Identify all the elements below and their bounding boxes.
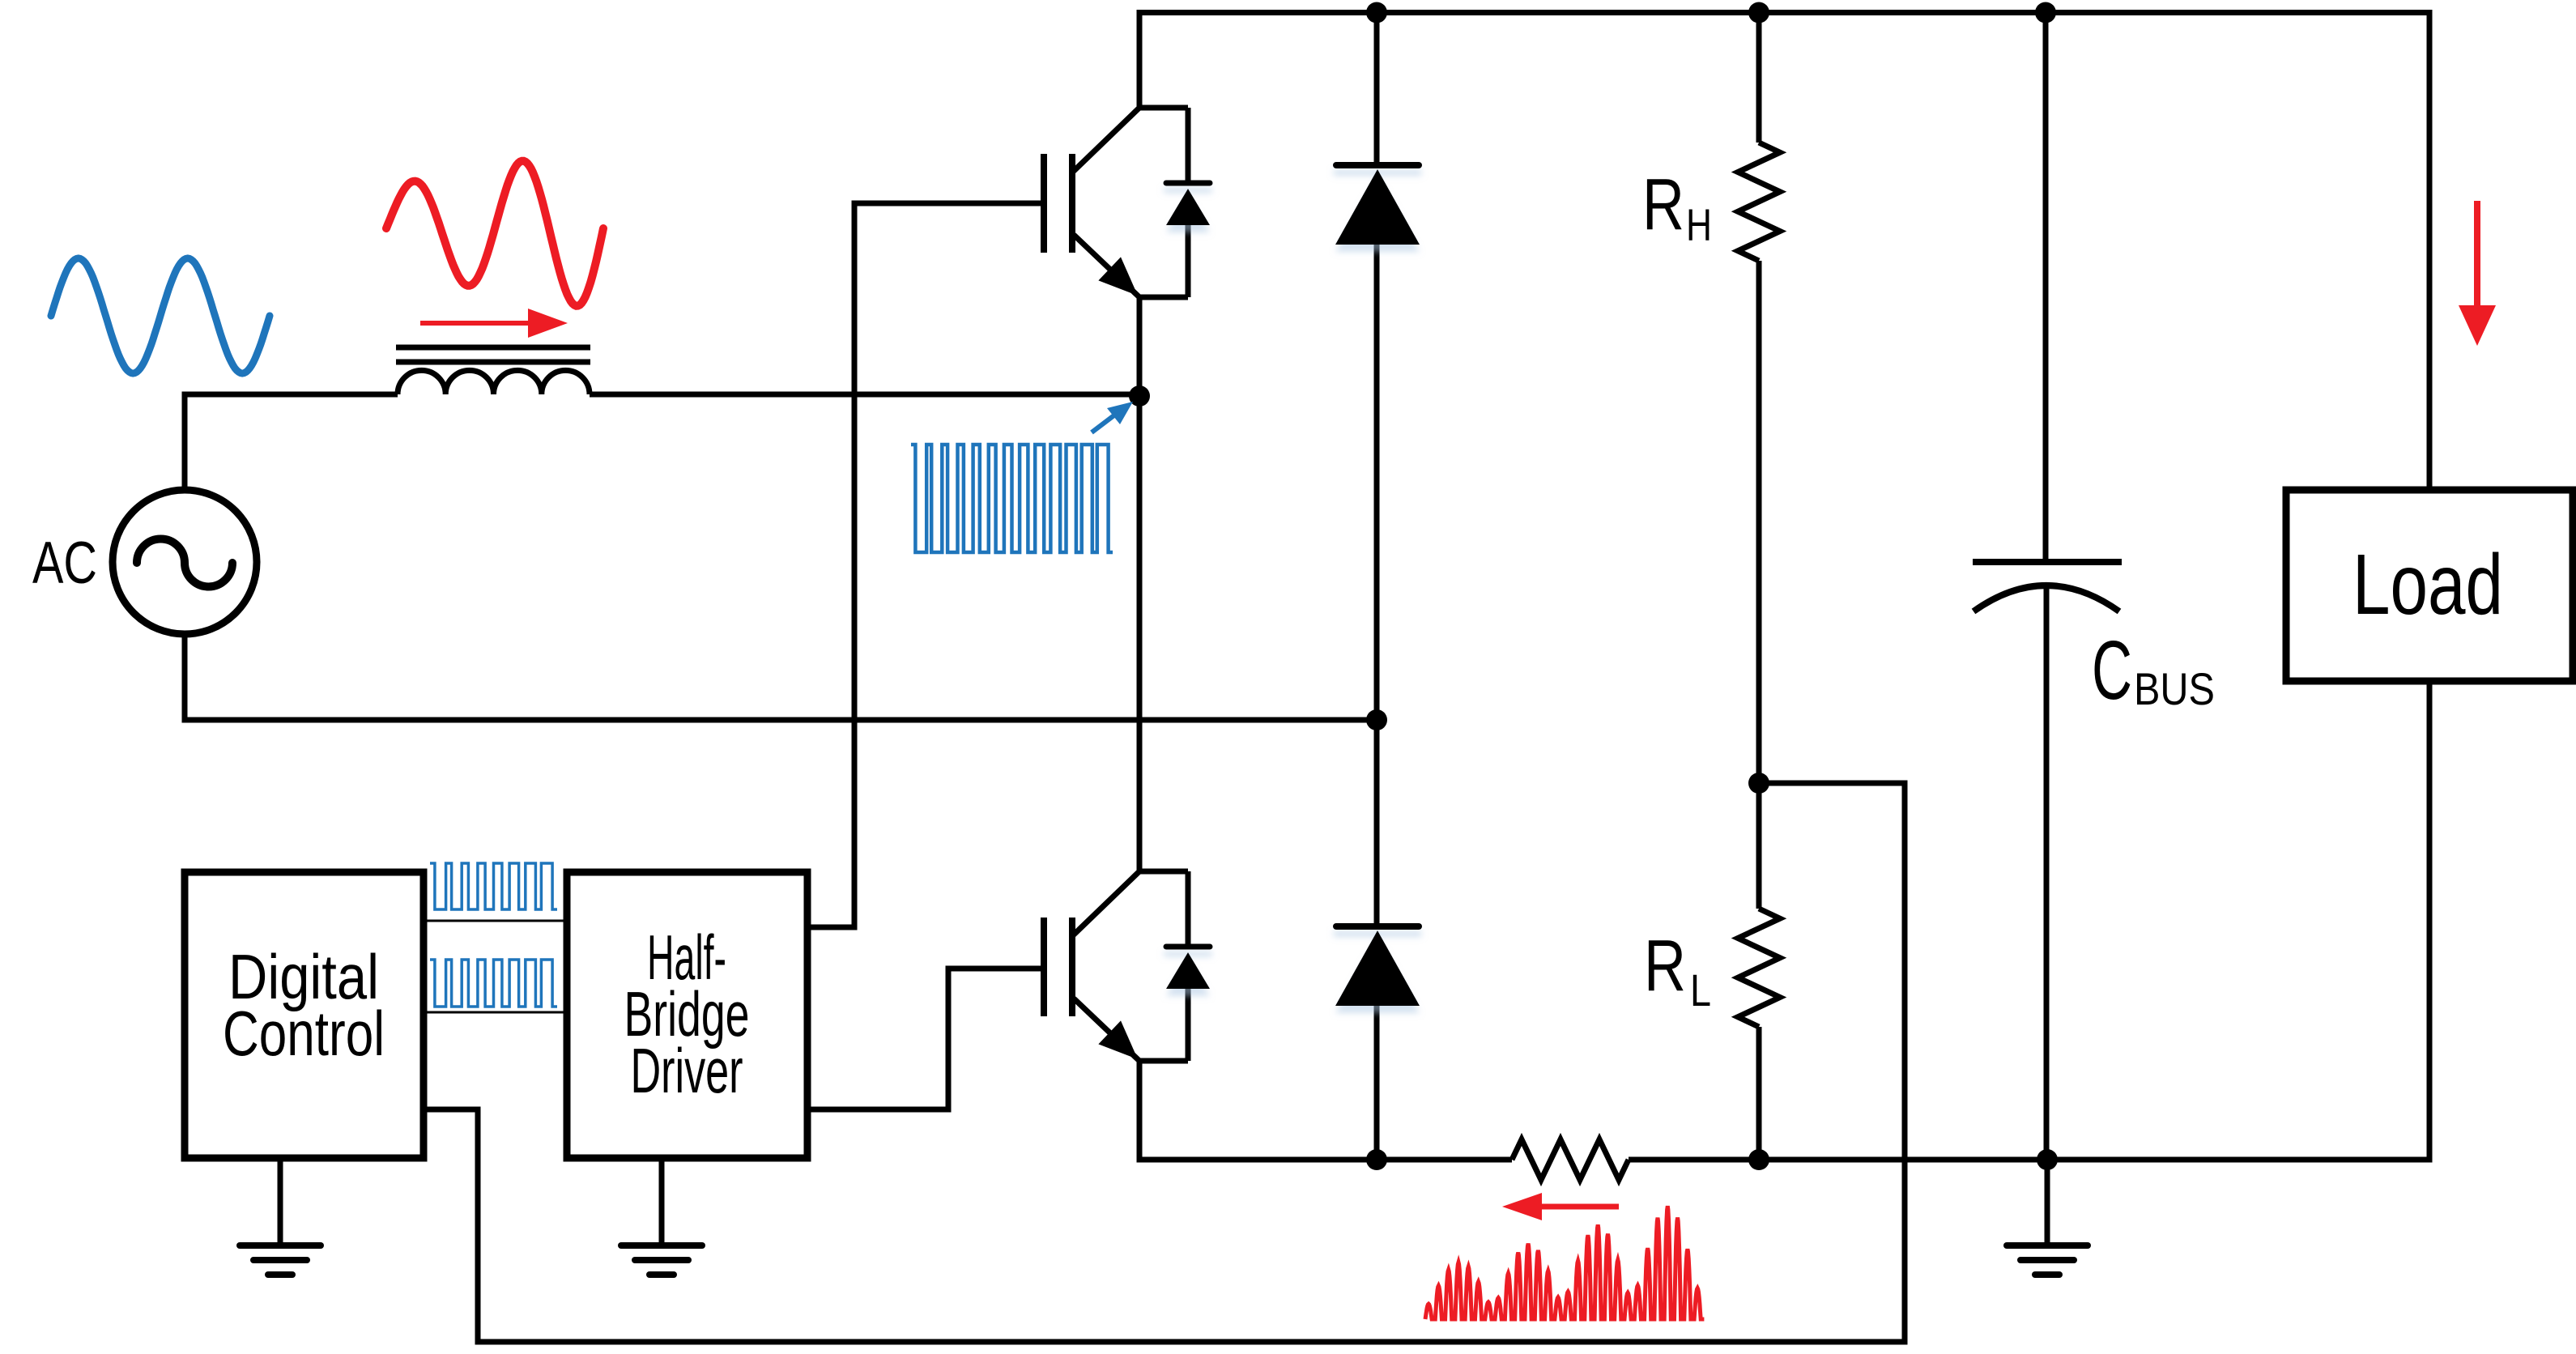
junction dot: AC return / diode leg <box>1366 709 1387 730</box>
svg-text:R: R <box>1644 926 1686 1007</box>
wire: high-side gate drive <box>807 203 1044 927</box>
blue PWM waveform at midpoint <box>911 445 1113 552</box>
junction dot: divider tap <box>1748 773 1769 794</box>
svg-text:BUS: BUS <box>2134 663 2215 714</box>
Load block <box>2286 490 2573 681</box>
wire: bottom return rail <box>1137 1157 1513 1163</box>
svg-text:R: R <box>1642 164 1684 245</box>
inductor L1 <box>398 370 590 394</box>
wire: diode leg vertical <box>1374 13 1380 166</box>
svg-text:AC: AC <box>32 530 97 596</box>
wire: resistor divider leg <box>1756 13 1762 143</box>
wire: half-bridge midpoint leg <box>1137 297 1143 871</box>
ground: Half-Bridge Driver <box>659 1160 665 1245</box>
IGBT Q2 (low side) <box>1044 871 1210 1061</box>
svg-text:L: L <box>1690 964 1711 1015</box>
wire: PWM signal line 1 <box>424 920 567 922</box>
junction dot: top rail / divider leg <box>1748 2 1769 23</box>
wire: CBUS leg <box>2043 13 2049 563</box>
resistor RH <box>1738 143 1780 261</box>
blue PWM waveform low-side signal <box>430 960 557 1007</box>
IGBT Q1 (high side) <box>1044 108 1210 297</box>
shunt resistor (current sense) <box>1512 1139 1629 1180</box>
red load current arrow (down) <box>2474 201 2480 312</box>
ground: CBUS negative rail <box>2045 1160 2050 1245</box>
blue arrow pointing at midpoint node <box>1092 415 1115 432</box>
wire: inductor to midpoint node <box>590 392 1139 398</box>
svg-text:Load: Load <box>2352 537 2503 632</box>
svg-text:C: C <box>2092 624 2132 717</box>
ground: Digital Control <box>278 1160 283 1245</box>
inductor L1 core bars <box>396 345 590 351</box>
wire: AC source return to diode leg <box>185 633 1377 720</box>
wire: current sense feedback loop <box>424 783 1905 1342</box>
junction dot: top rail / diode leg <box>1366 2 1387 23</box>
red current direction arrow (right) <box>420 321 528 326</box>
wire: top DC+ rail <box>1139 13 2429 491</box>
red return current arrow (left) <box>1542 1204 1619 1210</box>
red rectified sense-current waveform <box>1425 1206 1704 1319</box>
svg-text:H: H <box>1686 199 1712 250</box>
diode D1 (top) <box>1335 165 1420 245</box>
wire: AC source top to inductor <box>185 394 398 491</box>
svg-text:Control: Control <box>223 998 385 1069</box>
wire: load branch top <box>2427 488 2433 493</box>
junction dot: CBUS leg / bottom rail <box>2037 1149 2058 1170</box>
wire: PWM signal line 2 <box>424 1011 567 1014</box>
svg-text:Driver: Driver <box>631 1035 743 1106</box>
AC source V1 <box>113 490 257 634</box>
blue AC input voltage sine waveform <box>51 258 270 373</box>
Digital Control block <box>185 872 424 1158</box>
wire: low-side gate drive <box>807 969 1044 1109</box>
junction dot: diode leg / bottom rail <box>1366 1149 1387 1170</box>
Half-Bridge Driver block <box>567 872 807 1158</box>
diode D2 (bottom) <box>1335 926 1420 1006</box>
capacitor CBUS <box>1973 562 2122 611</box>
junction dot: top rail / CBUS leg <box>2035 2 2056 23</box>
node: half-bridge midpoint junction <box>1129 385 1150 407</box>
wire: IGBT Q2 emitter to bottom rail <box>1137 1061 1143 1162</box>
red inductor current waveform <box>386 161 603 306</box>
resistor RL <box>1738 909 1780 1027</box>
junction dot: divider leg / bottom rail <box>1748 1149 1769 1170</box>
blue PWM waveform high-side signal <box>430 863 557 909</box>
